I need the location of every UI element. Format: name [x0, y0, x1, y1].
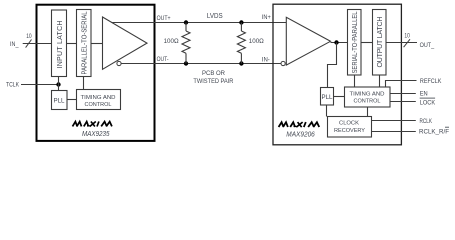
svg-text:LVDS: LVDS	[207, 13, 223, 20]
svg-text:MAX9206: MAX9206	[286, 129, 315, 138]
svg-text:EN: EN	[420, 90, 428, 97]
wire latch to PLL	[58, 77, 60, 91]
svg-text:10: 10	[404, 33, 410, 40]
wire RCLK	[372, 120, 416, 122]
svg-text:IN_: IN_	[10, 41, 19, 48]
timing and control block (serializer)	[77, 90, 121, 110]
serial-to-parallel block	[348, 10, 362, 76]
wire TCLK	[21, 84, 59, 86]
input latch block	[52, 10, 67, 77]
svg-text:OUT+: OUT+	[157, 15, 171, 22]
wire timing to clock recovery	[367, 107, 369, 117]
wire parallel-to-serial to driver	[91, 43, 103, 45]
svg-text:OUTPUT LATCH: OUTPUT LATCH	[377, 17, 384, 68]
junction bottom left	[184, 61, 188, 65]
junction bottom right	[239, 61, 243, 65]
node RCLK_R/F label with overline on F	[419, 127, 449, 135]
svg-text:TWISTED PAIR: TWISTED PAIR	[193, 78, 233, 85]
svg-text:RECOVERY: RECOVERY	[334, 128, 365, 134]
svg-text:LOCK: LOCK	[420, 100, 436, 107]
svg-text:100Ω: 100Ω	[249, 38, 264, 45]
svg-text:PLL: PLL	[322, 94, 333, 101]
wire output latch to OUT_	[386, 42, 417, 44]
svg-text:SERIAL-TO-PARALLEL: SERIAL-TO-PARALLEL	[352, 11, 359, 73]
wire LVDS positive line	[111, 22, 286, 24]
inverting output bubble	[117, 61, 121, 65]
svg-text:TCLK: TCLK	[6, 81, 19, 88]
wire receiver output	[331, 42, 348, 44]
deserializer outer box U2 MAX9206	[273, 4, 401, 145]
wire PLL to timing (deserializer)	[334, 96, 345, 98]
wire PLL to timing	[67, 99, 77, 101]
parallel-to-serial block	[77, 10, 92, 77]
svg-text:TIMING AND: TIMING AND	[81, 95, 116, 101]
svg-text:RCLK_R/F: RCLK_R/F	[419, 129, 449, 136]
wire LOCK	[391, 101, 416, 103]
svg-text:MAX9235: MAX9235	[82, 129, 110, 138]
junction TCLK	[56, 82, 60, 86]
svg-text:PCB OR: PCB OR	[202, 70, 225, 77]
LVDS driver amplifier triangle	[103, 17, 148, 69]
wire latch to parallel-to-serial	[67, 43, 77, 45]
svg-text:IN-: IN-	[262, 57, 270, 64]
svg-text:OUT_: OUT_	[420, 42, 435, 49]
svg-text:IN+: IN+	[262, 14, 271, 21]
PLL block (deserializer)	[321, 88, 334, 106]
wire EN	[391, 93, 416, 95]
svg-text:PARALLEL-TO-SERIAL: PARALLEL-TO-SERIAL	[82, 11, 89, 74]
MAXIM logo (deserializer)	[279, 122, 320, 127]
svg-text:CLOCK: CLOCK	[339, 121, 359, 127]
output latch block	[373, 10, 387, 76]
junction top right	[239, 20, 243, 24]
PCB OR TWISTED PAIR label	[193, 70, 233, 85]
wire serial-to-parallel to output latch	[361, 42, 373, 44]
wire output latch to timing	[379, 75, 381, 87]
wire IN_ to input latch	[23, 43, 52, 45]
svg-text:OUT-: OUT-	[157, 56, 169, 63]
wire serial-to-parallel to timing	[354, 75, 356, 87]
bus slash 10 out	[404, 39, 410, 47]
wire REFCLK	[386, 81, 417, 88]
svg-text:100Ω: 100Ω	[164, 38, 179, 45]
svg-text:RCLK: RCLK	[420, 118, 433, 125]
PLL block (serializer)	[52, 91, 68, 110]
wire serial to PLL jog	[328, 43, 337, 88]
inverting input bubble	[281, 61, 285, 65]
bus slash 10	[26, 40, 32, 48]
MAXIM logo (serializer)	[73, 122, 112, 127]
svg-text:CONTROL: CONTROL	[85, 102, 113, 108]
wire RCLK_R/F	[372, 131, 416, 133]
wire PLL to clock recovery	[326, 105, 328, 117]
junction serial node	[334, 40, 338, 44]
timing and control block (deserializer)	[345, 87, 391, 107]
junction top left	[184, 20, 188, 24]
wire LVDS negative line	[121, 63, 281, 65]
wire parallel-to-serial to timing	[83, 77, 85, 90]
svg-text:REFCLK: REFCLK	[420, 78, 442, 85]
serializer outer box U1 MAX9235	[37, 5, 155, 141]
node LOCK label with overline	[420, 98, 436, 107]
svg-text:PLL: PLL	[54, 98, 65, 105]
svg-text:INPUT LATCH: INPUT LATCH	[57, 21, 64, 69]
resistor R2 100 ohm	[237, 23, 245, 64]
svg-text:CONTROL: CONTROL	[354, 98, 382, 104]
svg-text:TIMING AND: TIMING AND	[350, 91, 385, 97]
resistor R1 100 ohm	[182, 23, 190, 64]
svg-text:10: 10	[26, 33, 32, 40]
clock recovery block	[328, 117, 372, 138]
LVDS receiver amplifier triangle	[286, 17, 330, 65]
